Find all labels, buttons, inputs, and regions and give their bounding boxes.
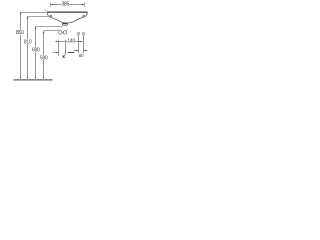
dash between fixing holes (62, 31, 63, 33)
detail hole left (80 pair) (77, 32, 80, 35)
dimension 80 (74, 50, 79, 52)
height line 810 (27, 18, 29, 78)
basin body outline (47, 12, 87, 23)
height line 850 (20, 14, 22, 78)
label 690 (32, 47, 40, 52)
svg-text:80: 80 (79, 53, 84, 58)
label 810 (24, 39, 32, 44)
label 590 (40, 55, 48, 60)
floor bar (14, 79, 53, 81)
extension line below left hole (58, 42, 60, 56)
extension line 690 to outlet stub (36, 26, 63, 28)
dimension 80 label (79, 53, 84, 58)
tap hole right on basin (83, 15, 85, 17)
svg-text:690: 690 (32, 48, 40, 54)
extension line 590 to fixing holes (44, 30, 59, 32)
dimension 385 arrowheads (50, 4, 53, 6)
height line 590 (43, 32, 45, 78)
tick on right hole (66, 29, 69, 30)
svg-text:850: 850 (16, 30, 24, 36)
label 850 (16, 30, 24, 35)
drain outlet stub (63, 23, 68, 26)
dimension 385 label (61, 2, 69, 8)
svg-text:140: 140 (67, 38, 75, 44)
basin rim (47, 11, 87, 13)
svg-text:385: 385 (61, 2, 69, 8)
wall fixing hole left (59, 31, 62, 34)
dimension 140 line (55, 41, 84, 43)
wall fixing hole right (63, 31, 66, 34)
extension below detail holes (78, 35, 80, 53)
leader to drain X (65, 40, 67, 54)
svg-text:590: 590 (40, 55, 48, 61)
tap hole left on basin (50, 15, 52, 17)
dimension 385 line (50, 4, 85, 6)
dimension X row right dash (68, 52, 75, 54)
dimension 140 label (68, 38, 75, 43)
background (0, 0, 90, 90)
extension line 810 to basin underside (28, 16, 48, 18)
detail hole right (80 pair) (82, 32, 85, 35)
tick on left hole (57, 29, 60, 30)
extension line 850 to rim (20, 12, 47, 14)
dimension X row left arrow (53, 52, 59, 54)
drain position X mark (62, 55, 64, 57)
perspective diagonal at rim left (44, 9, 47, 12)
height line 690 (35, 28, 37, 78)
svg-text:810: 810 (24, 39, 32, 45)
